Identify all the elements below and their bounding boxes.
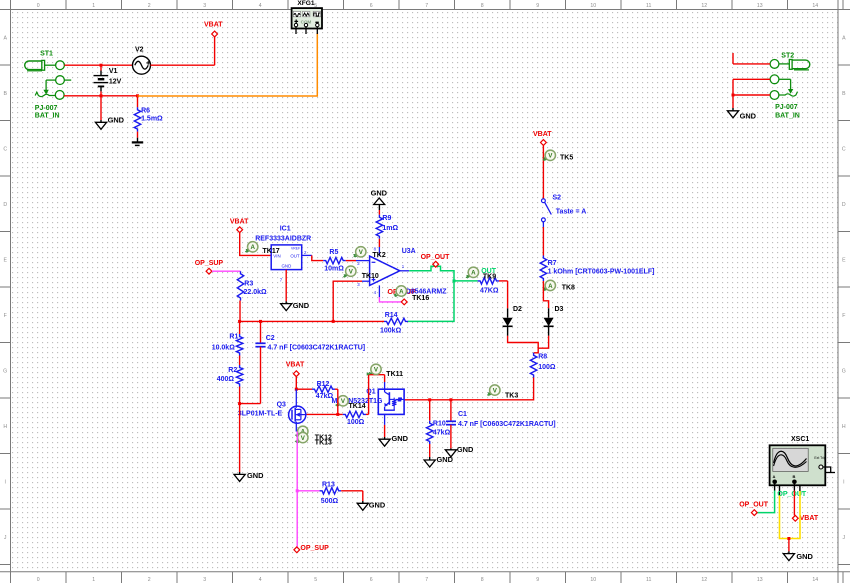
ground GND under IC1 [281,301,310,310]
ground GND under V1 [95,96,124,130]
svg-text:9: 9 [536,577,539,583]
svg-text:12: 12 [701,3,707,9]
svg-text:U3A: U3A [402,248,416,255]
transistor Q3 3LP01M-TL-E (P-MOSFET) [238,389,306,431]
resistor R12 47kohm [296,381,338,414]
svg-text:R8: R8 [538,353,547,360]
resistor R9 1mohm [376,210,398,247]
net label OUT [481,268,497,275]
probe TK16 [393,286,429,302]
probe TK10 [343,266,379,280]
resistor R5 10mohm [323,249,356,272]
svg-text:12V: 12V [109,78,122,85]
svg-text:TK8: TK8 [562,284,575,291]
svg-text:S2: S2 [553,195,562,202]
svg-text:3: 3 [203,3,206,9]
svg-text:GND: GND [740,111,757,120]
junction V1 bottom [100,94,103,97]
svg-text:C: C [3,147,7,153]
svg-text:14: 14 [812,577,818,583]
switch S2 (Taste = A) [542,195,587,227]
svg-text:11: 11 [646,3,651,9]
resistor 100ohm (Q1 gate row) [304,411,369,426]
svg-text:A: A [399,288,404,295]
probe TK14 [335,396,366,411]
svg-text:B: B [842,91,846,97]
ground GND under Q1 [379,434,409,446]
svg-text:R13: R13 [322,481,335,488]
probe TK9 [466,267,496,281]
svg-text:4.7 nF [C0603C472K1RACTU]: 4.7 nF [C0603C472K1RACTU] [268,345,366,352]
svg-text:10: 10 [590,577,596,583]
svg-text:1.5mΩ: 1.5mΩ [141,115,163,122]
svg-text:11: 11 [646,577,651,583]
wire IC1 OUT to R5 [302,255,324,260]
svg-text:VBAT: VBAT [533,131,552,138]
svg-text:TK13: TK13 [315,440,332,447]
svg-text:4.7 nF [C0603C472K1RACTU]: 4.7 nF [C0603C472K1RACTU] [458,421,556,428]
ground GND under R13 [357,501,386,511]
wire V2 to VBAT riser [151,37,215,66]
svg-text:R2: R2 [228,367,237,374]
svg-text:GND: GND [108,116,125,125]
resistor R2 400ohm [217,356,243,473]
connector ST2 (PJ-007 BAT_IN) [763,52,809,119]
diode D3 [544,306,564,336]
wire opamp - input row [356,260,370,262]
svg-text:GND: GND [371,188,388,197]
junction ST2 vertical [732,94,735,97]
oscilloscope XSC1 [770,436,835,496]
svg-text:VBAT: VBAT [204,22,223,29]
probe TK3 [487,385,518,400]
svg-text:B: B [3,91,7,97]
wire node row y=321.4 (R1/C2/opamp+/R14) [240,320,382,322]
battery V1 12V [94,65,122,96]
wire VBAT to scope channel B [793,491,795,516]
wire (green) OP_OUT to scope channel A [757,491,774,513]
svg-text:47KΩ: 47KΩ [480,287,499,294]
wire opamp + input feed [333,281,369,321]
transistor Q1 MMUN5232T1G (pre-biased) [332,389,405,415]
svg-text:G: G [842,369,846,375]
svg-text:R10: R10 [433,421,446,428]
wire ST2 pin1 row with open stub [733,53,770,64]
svg-text:OP_SUP: OP_SUP [195,260,224,267]
source V2 [133,47,151,75]
svg-text:VBAT: VBAT [230,219,249,226]
svg-text:R12: R12 [317,381,330,388]
net connector OP_OUT (scope) [739,502,769,516]
svg-text:GND: GND [282,263,292,268]
svg-text:Q1: Q1 [366,389,375,396]
svg-text:100Ω: 100Ω [538,364,556,371]
resistor R13 500ohm [297,481,363,505]
ground GND under scope [783,551,813,561]
svg-text:8: 8 [481,3,484,9]
wire ST2 pin3 row [733,79,770,108]
probe TK2 [353,247,386,259]
svg-text:TK14: TK14 [349,403,366,410]
svg-text:0: 0 [37,577,40,583]
svg-text:7: 7 [425,3,428,9]
probe TK8 [543,280,575,291]
svg-text:2: 2 [148,577,151,583]
svg-text:B: B [793,474,796,479]
probe TK13 [295,432,332,446]
svg-text:ST1: ST1 [40,51,53,58]
svg-text:PJ-007: PJ-007 [35,105,58,112]
svg-text:10.0kΩ: 10.0kΩ [212,344,236,351]
wire R8 to node row y=400 [404,378,533,400]
svg-text:OUT: OUT [290,253,300,258]
svg-text:Taste = A: Taste = A [556,208,587,215]
svg-text:VBAT: VBAT [286,362,305,369]
svg-text:7: 7 [425,577,428,583]
svg-text:14: 14 [812,3,818,9]
svg-text:TK11: TK11 [386,371,403,378]
connector ST1 (PJ-007 BAT_IN) [25,51,71,120]
svg-text:A: A [471,270,476,277]
wire R3 bottom to node row y=321.4 [239,301,241,322]
junction R6 top [136,94,139,97]
junction C2 bottom tap [238,402,241,405]
svg-text:REF3333AIDBZR: REF3333AIDBZR [255,236,311,243]
junction scope ground [787,537,790,540]
junction R10 top [428,398,431,401]
junction OUT branch [453,279,456,282]
svg-text:R7: R7 [548,260,557,267]
svg-text:TK17: TK17 [263,248,280,255]
net connector VBAT (S2 column) [533,131,552,145]
net connector VBAT (IC1) [230,219,249,233]
svg-text:XSC1: XSC1 [791,436,809,443]
svg-text:9: 9 [536,3,539,9]
svg-text:TK16: TK16 [412,295,429,302]
svg-text:13: 13 [757,577,763,583]
svg-text:1: 1 [92,577,95,583]
svg-text:H: H [3,424,7,430]
svg-text:TK5: TK5 [560,154,573,161]
wire Q3 gate row [303,413,305,415]
wire (magenta) OP_SUP to R3 [212,270,241,272]
svg-text:PJ-007: PJ-007 [775,104,798,111]
svg-text:3LP01M-TL-E: 3LP01M-TL-E [238,410,283,417]
probe TK12 [295,426,308,438]
ground GND under C1 [445,445,474,457]
capacitor C1 4.7 nF [446,400,556,449]
net connector OP_OUT (opamp) [421,254,451,267]
ground GND under R2 [234,471,264,481]
svg-text:I: I [4,480,5,486]
svg-text:E: E [842,258,846,264]
svg-text:Ext Trig: Ext Trig [814,456,826,460]
svg-text:C1: C1 [458,411,467,418]
svg-text:GND: GND [457,445,474,454]
junction opamp + feed [332,320,335,323]
wire (yellow) scope grounds [780,491,801,539]
junction C2 top [259,320,262,323]
junction V1 top [100,64,103,67]
wire Q1 collector riser / TK11 branch [369,375,385,415]
wire (green) opamp output with OP_OUT bump [408,266,454,321]
svg-text:6: 6 [370,577,373,583]
svg-text:10: 10 [590,3,596,9]
svg-text:F: F [4,313,7,319]
svg-text:A: A [250,244,255,251]
svg-text:0: 0 [37,3,40,9]
svg-text:A: A [548,283,553,290]
net connector VBAT (scope) [792,515,818,522]
svg-text:D3: D3 [555,306,564,313]
svg-text:6: 6 [370,3,373,9]
wire VBAT to S2 [542,145,544,198]
function generator XFG1 [292,0,322,34]
resistor R10 47kohm [427,400,451,457]
svg-text:13: 13 [757,3,763,9]
ground GND under ST2 [727,108,756,120]
resistor 47Kohm (TK9 branch) [478,278,508,295]
wire S2 to R7 [542,227,544,256]
probe TK17 [245,242,280,255]
svg-text:GND: GND [369,501,386,510]
svg-text:4: 4 [259,577,262,583]
svg-text:D: D [842,202,846,208]
resistor R14 100kohm [380,312,408,335]
wire 47k to D2 [507,281,509,308]
svg-text:TK9: TK9 [483,274,496,281]
svg-text:TK2: TK2 [373,252,386,259]
svg-text:GND: GND [392,434,409,443]
resistor R6 1.5mohm [134,96,163,138]
svg-text:22.0kΩ: 22.0kΩ [244,289,268,296]
svg-text:2: 2 [148,3,151,9]
svg-text:V2: V2 [135,47,144,54]
opamp value AD8546ARMZ [401,288,448,295]
svg-text:XFG1: XFG1 [297,0,315,7]
resistor R8 100ohm [530,353,555,378]
wire Q1 emitter to ground [384,414,386,437]
junction row left [238,320,241,323]
wire D2/D3 cathodes to R8 [508,336,549,353]
svg-text:OP_OUT: OP_OUT [777,491,807,498]
wire IC1 GND pin [285,270,287,302]
svg-text:47kΩ: 47kΩ [316,393,334,400]
svg-text:F: F [842,313,845,319]
svg-text:Q3: Q3 [277,401,286,408]
voltage reference IC1 REF3333AIDBZR [255,226,311,283]
wire (magenta) OP_SUP net from Q3 drain [296,432,298,548]
resistor R7 1 kOhm [540,256,654,282]
wire ST1 pin1 to V1/V2 top row [64,64,132,66]
svg-text:500Ω: 500Ω [321,498,339,505]
svg-text:R3: R3 [244,280,253,287]
svg-text:ST2: ST2 [781,52,794,59]
wire scope ground down [788,539,790,552]
wire ST2 pin2 row [733,78,770,80]
svg-text:4: 4 [259,3,262,9]
svg-text:H: H [842,424,846,430]
op-amp U3A AD8546ARMZ [357,247,416,297]
svg-text:D2: D2 [513,306,522,313]
svg-text:GND: GND [247,471,264,480]
wire VBAT to IC1 VIN [240,233,272,256]
junction C1 top [449,398,452,401]
svg-text:J: J [843,535,846,541]
svg-text:I: I [843,480,844,486]
net connector VBAT (Q3) [286,362,305,377]
svg-text:A: A [842,36,846,42]
net connector OP_SUP (bottom) [294,545,329,553]
junction R12 right / gate node [336,413,339,416]
svg-text:C: C [842,147,846,153]
svg-text:R14: R14 [385,312,398,319]
wire ST1 pin3 to bottom row [64,95,138,97]
svg-text:OP_OUT: OP_OUT [739,502,769,509]
svg-text:A: A [3,36,7,42]
svg-text:BAT_IN: BAT_IN [775,113,800,120]
svg-text:IC1: IC1 [280,226,291,233]
svg-text:100kΩ: 100kΩ [380,328,402,335]
wire (magenta) opamp V- to OP_SUP connector [379,297,401,302]
svg-text:8: 8 [481,577,484,583]
svg-text:5: 5 [314,577,317,583]
ground GND under R10 [424,455,453,467]
svg-text:G: G [3,369,7,375]
capacitor C2 4.7 nF [240,321,366,403]
wire R7 to D3 (jog) [543,281,548,308]
svg-text:R5: R5 [329,249,338,256]
net connector OP_SUP (opamp) [388,289,417,305]
svg-text:V1: V1 [109,68,118,75]
svg-text:100Ω: 100Ω [347,419,365,426]
svg-text:12: 12 [701,577,707,583]
wire VBAT to Q3/R12 junction [295,377,297,390]
svg-text:GND: GND [293,301,310,310]
svg-text:47kΩ: 47kΩ [433,430,451,437]
svg-text:E: E [3,258,7,264]
junction R13 tap [296,489,299,492]
svg-text:GND: GND [796,552,813,561]
svg-text:3: 3 [203,577,206,583]
svg-text:1: 1 [92,3,95,9]
ground GND (flipped) above R9 [371,188,388,210]
svg-text:1 kOhm [CRT0603-PW-1001ELF]: 1 kOhm [CRT0603-PW-1001ELF] [548,269,655,276]
svg-text:R6: R6 [141,107,150,114]
resistor R3 22.0kohm [237,271,267,300]
svg-text:R9: R9 [382,215,391,222]
svg-text:TK10: TK10 [362,273,379,280]
probe TK11 [367,364,403,378]
svg-text:TK3: TK3 [505,392,518,399]
svg-text:J: J [4,535,7,541]
net connector VBAT (top) [204,22,223,37]
earth ground under R6 [132,138,143,146]
svg-text:OP_SUP: OP_SUP [300,545,329,552]
net connector OP_SUP (top) [195,260,224,274]
wire (green) OUT branch to 47k [454,280,478,282]
svg-text:1mΩ: 1mΩ [382,225,398,232]
svg-text:BAT_IN: BAT_IN [35,113,60,120]
junction Q3 source node [295,388,298,391]
wire (orange) bottom row to XFG1 minus pin [138,33,318,96]
probe TK5 [543,150,574,161]
resistor R1 10.0kohm [212,321,243,355]
svg-text:VBAT: VBAT [800,515,819,522]
svg-text:C2: C2 [266,335,275,342]
diode D2 [503,306,522,336]
svg-text:10mΩ: 10mΩ [324,265,344,272]
net label OP_OUT (green) [777,491,807,498]
svg-text:OP_OUT: OP_OUT [421,254,451,261]
svg-text:A: A [773,474,776,479]
svg-text:400Ω: 400Ω [217,376,235,383]
svg-text:VREF: VREF [291,246,300,250]
svg-text:R1: R1 [229,333,238,340]
svg-text:D: D [3,202,7,208]
